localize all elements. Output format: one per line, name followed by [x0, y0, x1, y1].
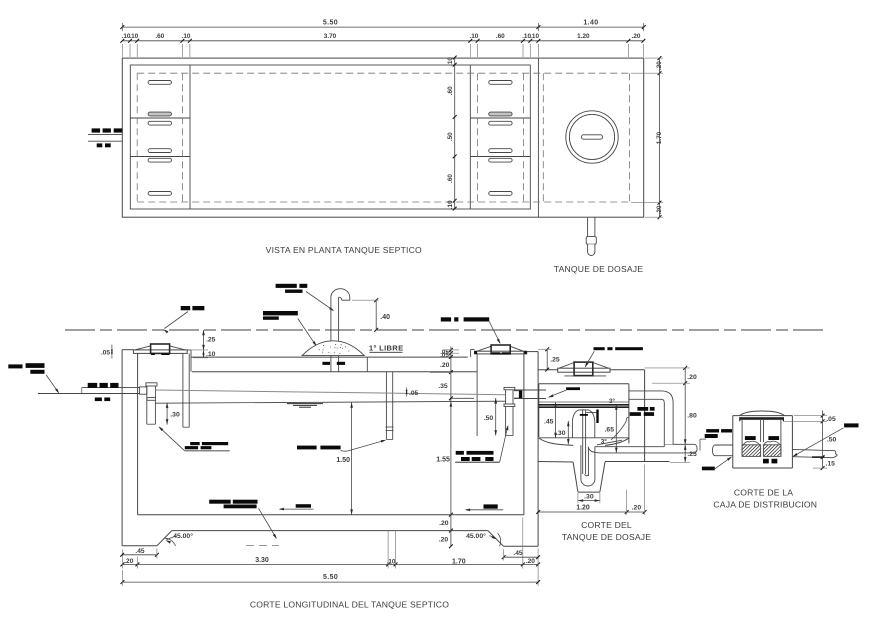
- dimension .25 (dosing cover depth): [546, 349, 548, 369]
- dimension .30 (inlet tee depth): [166, 403, 168, 425]
- redacted note + leader to outlet tee: [456, 451, 464, 455]
- outlet tee and wall sleeve (section): [504, 387, 515, 389]
- dimension column inside plan (.10/.60/.50/.60/.10): [454, 58, 456, 209]
- svg-text:.50: .50: [447, 132, 454, 141]
- svg-text:.05: .05: [409, 390, 418, 397]
- svg-text:.05: .05: [826, 416, 836, 423]
- svg-text:TANQUE DE DOSAJE: TANQUE DE DOSAJE: [562, 532, 652, 542]
- redacted note + flow arrow (floor left): [296, 504, 311, 508]
- svg-text:CORTE DE LA: CORTE DE LA: [734, 487, 793, 497]
- svg-text:.60: .60: [447, 86, 454, 95]
- dosing tank cover with hatch box (section): [538, 369, 558, 371]
- vent pipe collar marks: [322, 362, 330, 365]
- tank ceiling line (slab bottom): [192, 371, 477, 373]
- svg-text:.15: .15: [826, 461, 836, 468]
- dosing tank dished floor: [539, 437, 629, 439]
- dimension .40 (vent height): [375, 300, 377, 330]
- svg-text:CORTE LONGITUDINAL DEL TANQUE: CORTE LONGITUDINAL DEL TANQUE SEPTICO: [250, 599, 449, 609]
- svg-text:.60: .60: [155, 33, 164, 40]
- svg-text:.45: .45: [513, 550, 522, 557]
- hanging baffle mid-tank (section): [385, 372, 387, 440]
- dimension column right (.05/.05/.20/.35/1.55/.20/.20): [450, 347, 452, 547]
- svg-text:.05: .05: [101, 350, 110, 357]
- svg-text:3°: 3°: [601, 438, 608, 446]
- dimension column .20/.80/.25 (dosing right): [684, 368, 686, 463]
- svg-text:VISTA EN PLANTA TANQUE SEPTICO: VISTA EN PLANTA TANQUE SEPTICO: [266, 245, 422, 255]
- svg-text:.10: .10: [206, 351, 216, 358]
- dimension .50 (outlet tee depth): [495, 398, 497, 435]
- redacted bars at inlet pipe (section): [88, 383, 98, 388]
- dimension column .05/.50/.15 (distribution box): [822, 411, 824, 469]
- redacted note + leader to inlet tee bottom: [190, 442, 200, 445]
- svg-text:1° LIBRE: 1° LIBRE: [369, 344, 404, 353]
- svg-text:.25: .25: [206, 337, 216, 344]
- dashed inner boundary lines (plan): [137, 72, 629, 74]
- svg-text:.20: .20: [439, 536, 449, 543]
- middle baffle wall left line (plan): [469, 65, 471, 209]
- svg-text:.80: .80: [687, 412, 697, 419]
- svg-text:.20: .20: [526, 558, 535, 565]
- svg-text:45.00°: 45.00°: [173, 532, 193, 540]
- redacted label bars at plan inlet: [92, 128, 101, 132]
- redacted note left of distribution box: [706, 429, 719, 432]
- dimension 1.50 (water depth): [351, 403, 353, 515]
- svg-text:.45: .45: [544, 419, 554, 426]
- dosing tank outlet pipe (plan): [587, 217, 589, 236]
- svg-text:.10: .10: [129, 33, 138, 40]
- svg-text:.65: .65: [605, 427, 615, 434]
- distribution box lid plate: [740, 417, 784, 420]
- svg-text:.30: .30: [584, 494, 594, 501]
- svg-text:5.50: 5.50: [323, 574, 338, 581]
- svg-text:.20: .20: [656, 61, 663, 70]
- redacted note right of bell: [637, 407, 648, 411]
- svg-text:5.50: 5.50: [323, 20, 338, 27]
- bottom dimension 5.50: [122, 581, 538, 583]
- dimension 1.20/.20 (dosing bottom): [538, 511, 644, 513]
- svg-text:.20: .20: [632, 33, 641, 40]
- svg-text:.25: .25: [550, 356, 560, 363]
- redacted note + leader (dosing water line): [566, 387, 580, 390]
- svg-text:1.55: 1.55: [436, 456, 450, 463]
- svg-text:3°: 3°: [609, 397, 616, 405]
- redacted note + leader to ground line: [181, 306, 191, 310]
- svg-text:.45: .45: [135, 548, 144, 555]
- svg-text:1.40: 1.40: [583, 20, 598, 27]
- septic tank left wall (section): [121, 350, 123, 546]
- septic tank inner wall (plan): [130, 65, 530, 209]
- distribution box outline (section): [732, 416, 734, 468]
- svg-text:CORTE DEL: CORTE DEL: [581, 520, 632, 530]
- vent pipe with hook (section): [330, 296, 332, 372]
- svg-text:.20: .20: [687, 374, 697, 381]
- inlet pipe and tee (section): [38, 393, 140, 395]
- svg-text:1.20: 1.20: [577, 33, 590, 40]
- bell siphon (dosing section): [572, 410, 594, 422]
- dimension .05 (left cover): [111, 345, 113, 359]
- hanging baffle near inlet (section): [182, 353, 184, 427]
- redacted note + leader to box outlet: [844, 423, 858, 427]
- svg-text:45.00°: 45.00°: [466, 532, 486, 540]
- redacted note + flow arrow (floor right): [484, 504, 498, 508]
- redacted note + leader to right cover: [441, 317, 451, 321]
- dosing tank cover circle (plan): [566, 111, 618, 163]
- dimension .45 right footing: [504, 556, 538, 558]
- dimensions .45/.30/.65 and 3 deg slopes (dosing): [555, 403, 557, 439]
- svg-text:TANQUE DE DOSAJE: TANQUE DE DOSAJE: [554, 264, 644, 274]
- svg-text:.10: .10: [447, 57, 454, 66]
- distribution box inner walls and divider: [741, 420, 743, 457]
- dimension column right of plan (.20/1.70/.20): [659, 58, 661, 217]
- right access cover with hatch box (section): [470, 350, 472, 357]
- svg-text:3.70: 3.70: [324, 33, 337, 40]
- tank floor and footing (section): [138, 514, 524, 516]
- overflow drop pipe and outlet (dosing): [629, 390, 662, 392]
- svg-text:.20: .20: [632, 505, 642, 512]
- svg-text:.50: .50: [827, 437, 837, 444]
- svg-text:.30: .30: [556, 430, 566, 437]
- wall between septic and dosing tank (plan): [537, 58, 539, 217]
- slab joint line: [366, 357, 368, 372]
- svg-text:.25: .25: [687, 451, 697, 458]
- drain marks under hatch: [763, 459, 769, 464]
- U-trap of bell siphon: [580, 445, 582, 479]
- dimension .30 (trap width): [578, 500, 600, 502]
- inlet compartment wall (plan): [189, 65, 191, 209]
- top slab between covers (section): [187, 349, 191, 351]
- svg-text:1.70: 1.70: [656, 131, 663, 144]
- water symbol in distribution box: [744, 441, 760, 444]
- redacted note + leader to vent pipe: [276, 284, 297, 288]
- bottom dimension chain .20/3.30/.10/1.70/.20: [122, 563, 538, 565]
- svg-text:.60: .60: [447, 174, 454, 183]
- svg-text:CAJA DE DISTRIBUCION: CAJA DE DISTRIBUCION: [713, 500, 817, 510]
- dimension line .10/.60/.10/3.70/... (plan top): [122, 40, 643, 42]
- redacted note + leader to box bottom: [702, 467, 715, 471]
- svg-text:.30: .30: [170, 412, 180, 419]
- svg-text:.20: .20: [656, 205, 663, 214]
- distribution box outlet pipe: [792, 449, 834, 450]
- pipe from septic to dosing tank: [514, 389, 546, 391]
- black marks in distribution box: [745, 436, 756, 440]
- hatched concrete base (distribution box): [729, 445, 785, 457]
- svg-text:1.70: 1.70: [452, 559, 466, 566]
- svg-text:.40: .40: [380, 314, 390, 321]
- svg-text:.35: .35: [438, 383, 448, 390]
- dimension .45 left footing: [122, 554, 157, 556]
- compartment divider lines (plan): [130, 117, 190, 119]
- svg-text:.60: .60: [496, 33, 505, 40]
- svg-text:1.50: 1.50: [336, 457, 350, 464]
- redacted note + leader to concrete mound: [263, 311, 298, 315]
- septic+dosing tank outer wall (plan): [122, 58, 643, 217]
- concrete mound around vent (section): [302, 341, 364, 356]
- svg-text:3.30: 3.30: [255, 557, 269, 564]
- svg-text:.20: .20: [124, 558, 133, 565]
- water level lines (dosing section): [539, 401, 629, 403]
- inlet pipe (plan): [88, 133, 122, 135]
- svg-text:.20: .20: [440, 362, 450, 369]
- distribution box inlet pipe: [715, 444, 733, 446]
- ground level dashed line (section): [65, 329, 825, 331]
- dimension line 5.50 / 1.40 (plan top): [122, 26, 643, 28]
- svg-text:.50: .50: [484, 415, 494, 422]
- svg-text:.10: .10: [530, 33, 539, 40]
- dimensions .25/.10 (cover depth): [203, 330, 205, 358]
- dosing tank walls and ceiling (section): [538, 384, 540, 437]
- left access cover with hatch box (section): [133, 350, 187, 354]
- svg-text:.05: .05: [440, 352, 449, 359]
- svg-text:1.20: 1.20: [576, 505, 590, 512]
- svg-text:.10: .10: [469, 33, 478, 40]
- redacted note + leader to mid baffle: [297, 446, 317, 450]
- dimension .05 (freeboard at outlet): [406, 388, 408, 397]
- water level lines (septic section): [156, 390, 505, 395]
- svg-text:.20: .20: [439, 520, 449, 527]
- redacted note + leader to inlet pipe (far left): [8, 364, 22, 368]
- svg-text:.10: .10: [182, 33, 191, 40]
- svg-text:.10: .10: [447, 200, 454, 209]
- trap surround and dosing tank bottom: [573, 462, 578, 492]
- redacted note + leader to floor: [209, 500, 231, 504]
- redacted note + leader to dosing cover: [594, 347, 605, 350]
- septic tank right wall (section): [523, 351, 525, 515]
- inspection slots (plan): [148, 81, 171, 85]
